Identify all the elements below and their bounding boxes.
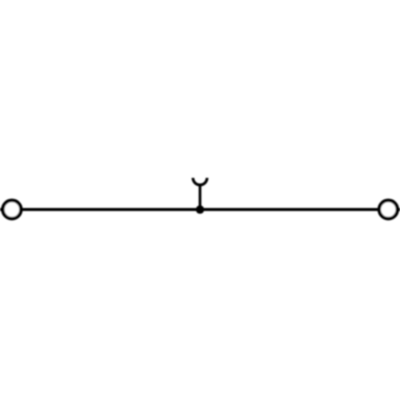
node junction — [196, 205, 204, 213]
wire — [0, 208, 400, 211]
test tap arc — [193, 178, 207, 185]
wire (test-tap stem) — [199, 185, 202, 210]
terminal circle left — [3, 200, 21, 218]
terminal circle right — [379, 200, 397, 218]
